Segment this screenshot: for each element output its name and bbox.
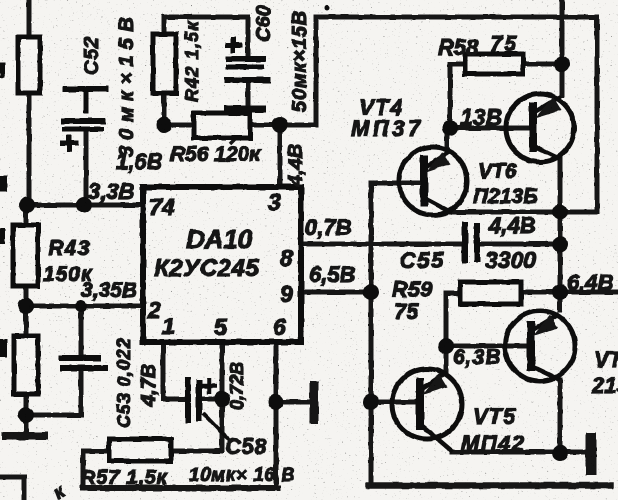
wire VT5 emitter to chassis bar right [452,450,586,455]
node F pin9 dot [363,284,379,300]
resistor lower-left (unlabeled) body [14,336,38,394]
wire VT6 collector down to VT7 [558,158,563,310]
wire C60 bottom stem [246,84,251,126]
resistor R43 150k body [13,225,38,286]
transistor VT4 MP37 [399,147,467,215]
wire node B horizontal to pin 2 [26,304,143,309]
resistor R (top-left, unlabeled) [18,37,40,93]
wire pin 9 to node F [301,290,371,295]
wire VT5 collector stub [444,346,449,374]
wire VT4 emitter to right leg [448,210,597,215]
node VT7 collector dot [552,445,568,461]
node B dot [18,298,34,314]
wire VT4 collector stub [445,128,450,152]
wire bottom-left corner [0,477,24,500]
node R58 right dot [554,56,570,72]
wire pin 8 to C55 left [301,242,463,247]
node 6.4V dot [552,284,568,300]
wire C55 right to VT6 collector line [479,242,560,247]
node VT5 base dot [363,394,379,410]
wire node E right and up to supply rail [280,17,316,125]
wire C53 bottom stem [79,370,84,415]
wire R57 left loop [83,451,109,488]
wire R57 right to pin5 node [171,400,222,451]
resistor R57 1.5k body [109,439,171,461]
wire R59 right lead to node 6.4V [521,290,560,295]
capacitor C52 [60,89,109,152]
wire R to node A [27,93,32,205]
IC DA10 K2US245 [143,187,301,342]
leader tick R56 [230,134,240,144]
capacitor C60 [224,37,271,109]
node VT5 collector dot [438,338,454,354]
wire R59 left lead down to VT5 collector node [446,293,460,346]
chassis bar left (pin6) [310,381,319,424]
wire VT5 base [371,400,415,405]
resistor R42 1.5k body [153,34,176,93]
wire C60 top stem [246,17,251,56]
node C dot [18,407,34,423]
wire node C horizontal to C53 bottom [26,413,81,418]
wire R58 left lead down to node 13V [450,64,465,128]
wire node 6.4V to right edge [560,290,618,295]
capacitor C53 0.022 [59,358,108,368]
node pin6 dot [268,394,284,410]
chassis bar bottom right [586,433,597,475]
wire node C stub down to chassis bar [24,415,29,433]
capacitor C55 3300 [465,222,477,263]
wire top-left vertical into R [27,0,32,37]
capacitor C58 10uF [188,377,230,441]
node E dot [272,117,288,133]
wire R42 top stem [162,17,167,34]
resistor R58 75 body [465,54,523,74]
wire node B down to lower resistor [24,306,29,336]
transistor VT5 MP42 [392,369,462,452]
wire R43 to node B [24,286,29,306]
wire lower resistor to node C [24,394,29,415]
wire C58 right plate to pin5 node [202,397,222,402]
wire node E down to pin 3 [278,125,283,187]
transistor VT7 213 [505,311,575,381]
wire node L1 vertical [369,183,374,485]
node D dot [156,117,172,133]
wire bottom rail right segment [369,482,610,489]
node C55 right dot [552,236,568,252]
wire C52 bottom stem to node A [84,132,89,205]
resistor R59 75 body [460,282,521,304]
node 13V dot [442,120,458,136]
wire VT5 collector node to VT7 base [446,344,526,349]
edge fragment marks [0,62,7,357]
wire top rail R42 to C60 [164,15,248,20]
chassis bar bottom-left node C [2,432,48,440]
wire node 13V to VT6 base [450,126,530,131]
transistor VT6 P213B [506,94,574,162]
wire pin6 node to chassis bar [276,400,311,405]
node pin5/C58 dot [214,391,230,407]
resistor R56 120k body [194,113,250,138]
node B C53 dot [75,300,87,312]
wire R58 right lead to VT6 emitter rail [523,62,562,67]
node A dot [19,197,35,213]
wire pin 5 down [220,342,225,399]
wire node A horizontal to pin 7/4 [27,203,143,208]
wire supply right leg down [595,17,600,212]
wire C53 top stem from node B [79,306,84,356]
node A C52 dot [76,197,92,213]
node VT4 emitter dot [552,204,568,220]
wire bottom rail left segment [83,485,278,491]
wire pin 1 down [163,342,185,399]
wire VT6 emitter line to top edge [560,0,565,95]
wire pin 6 down to bottom rail [274,342,279,488]
wire VT4 base [371,181,420,186]
wire VT7 collector down [558,380,563,453]
speck top [325,6,330,11]
wire node A to R43 [24,205,29,225]
wire node D to R56 to node E [164,123,280,128]
wire R42 bottom to node D [162,93,167,125]
wire supply top rail [316,15,597,20]
